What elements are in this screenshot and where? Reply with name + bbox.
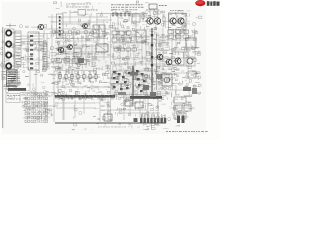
coil core L1 [6,30,11,35]
dense box rows midtop [112,31,131,42]
long horizontal interconnect wires [20,16,198,113]
tuner shield box [5,29,15,69]
circle in box right [187,58,193,64]
small box right top [188,71,196,78]
dark patch mid [78,58,84,63]
tuner feed wires [21,39,44,44]
IF can box [96,44,108,52]
crystal box top [149,4,157,9]
logo red badge [195,0,205,6]
label box under bar [6,94,20,103]
dark patch band b [143,85,149,90]
transistor Q8 [165,59,172,65]
bottom terminal block [140,118,166,123]
transistor Q4 [153,18,161,24]
connector dot strip [57,14,64,38]
small box grid right [168,30,189,38]
dark patch band a [130,72,138,76]
scan shading mid-right band [111,28,163,69]
top text line 2 [111,6,144,9]
transistor Q11 [81,24,87,29]
Q3 Q4 stub wires [150,11,158,18]
hatched power bus [55,95,115,98]
top text line 3 [111,8,137,11]
schematic wiring mesh [0,1,202,130]
dark patch band d [118,92,126,95]
small circle in band [144,74,148,78]
faint top text row 1 [66,3,91,6]
top text line 1 [111,3,143,6]
wire to top-mid box [70,11,78,13]
mid box [74,48,81,57]
center double can [93,25,99,37]
crystal label [159,5,167,6]
right column box 2 [174,105,182,111]
labels above Q5 Q6 [170,9,183,12]
top-mid small box [78,10,86,16]
box near diode row [132,14,140,22]
vertical bus right-mid [151,28,153,95]
box above bus [104,114,112,121]
labels above Q3 Q4 [146,9,159,12]
top distribution wire [96,13,148,15]
bottom bus wire [55,122,166,124]
input column part [142,12,144,21]
dense component column B [136,70,148,92]
right column dark bars [177,116,180,124]
box with circle 2 [162,74,172,86]
caption text [166,131,208,132]
IF module tall box [28,32,39,70]
mid-left dash row [56,53,96,56]
connector J1 block [7,70,18,87]
coil core L2 [6,41,11,46]
tuner pin strip [15,31,21,67]
ground bar under J1 [8,88,26,91]
background sheet [0,0,220,140]
logo wordmark [207,1,220,6]
transistor Q5 [168,18,176,24]
dense component column A [113,71,131,90]
section divider wire [53,70,55,122]
terminal strip grid [25,94,48,123]
bus junction blobs [151,34,153,66]
antenna input marks [6,24,16,28]
outlined box column B [136,74,143,80]
outlined boxes column A [112,74,128,89]
transistor Q7 [156,54,163,60]
small box left of terminal row [134,118,138,122]
dark marks right [183,87,191,91]
resistor between pairs [163,14,165,24]
faint bottom text [98,126,126,129]
box with circle top-right [186,38,196,48]
long vertical interconnect wires [30,10,195,122]
right column box 3 [174,113,186,119]
tuner coil leads [12,33,16,66]
transistor Q2 [66,45,72,50]
faint top text row 2 [66,6,89,9]
vertical bus dark center [132,66,134,100]
dark marks lower-mid [150,92,156,97]
dark patch band c [156,74,162,79]
component row band [50,31,90,33]
sheet left border wire [2,27,4,128]
transistor Q9 [174,58,182,64]
transistor Q6 [176,18,184,24]
coil core L3 [6,52,11,57]
transistor Q10 [37,24,44,29]
lower boxes mid [125,100,133,106]
coil core L4 [6,63,11,68]
scanned page area tint [2,2,206,134]
mid-left box row [56,59,87,65]
mid-left distribution wire [55,38,108,40]
dual transistor enclosure box [169,14,187,30]
scan shading mid-left band [54,44,110,71]
oscillator can [172,52,184,65]
right column box 1 [174,97,186,103]
resistor ladder row R10-R16 [59,71,97,82]
diode row D1-D5 [112,12,130,17]
dark horizontal bar under band [130,96,162,99]
pin strip hatched [43,42,47,70]
transistor Q3 [145,18,153,24]
IF can with X [136,30,146,42]
transistor Q1 [57,47,64,52]
top-mid label [87,9,98,12]
scan shading dense band [111,69,167,97]
row of small boxes midright [114,48,137,51]
